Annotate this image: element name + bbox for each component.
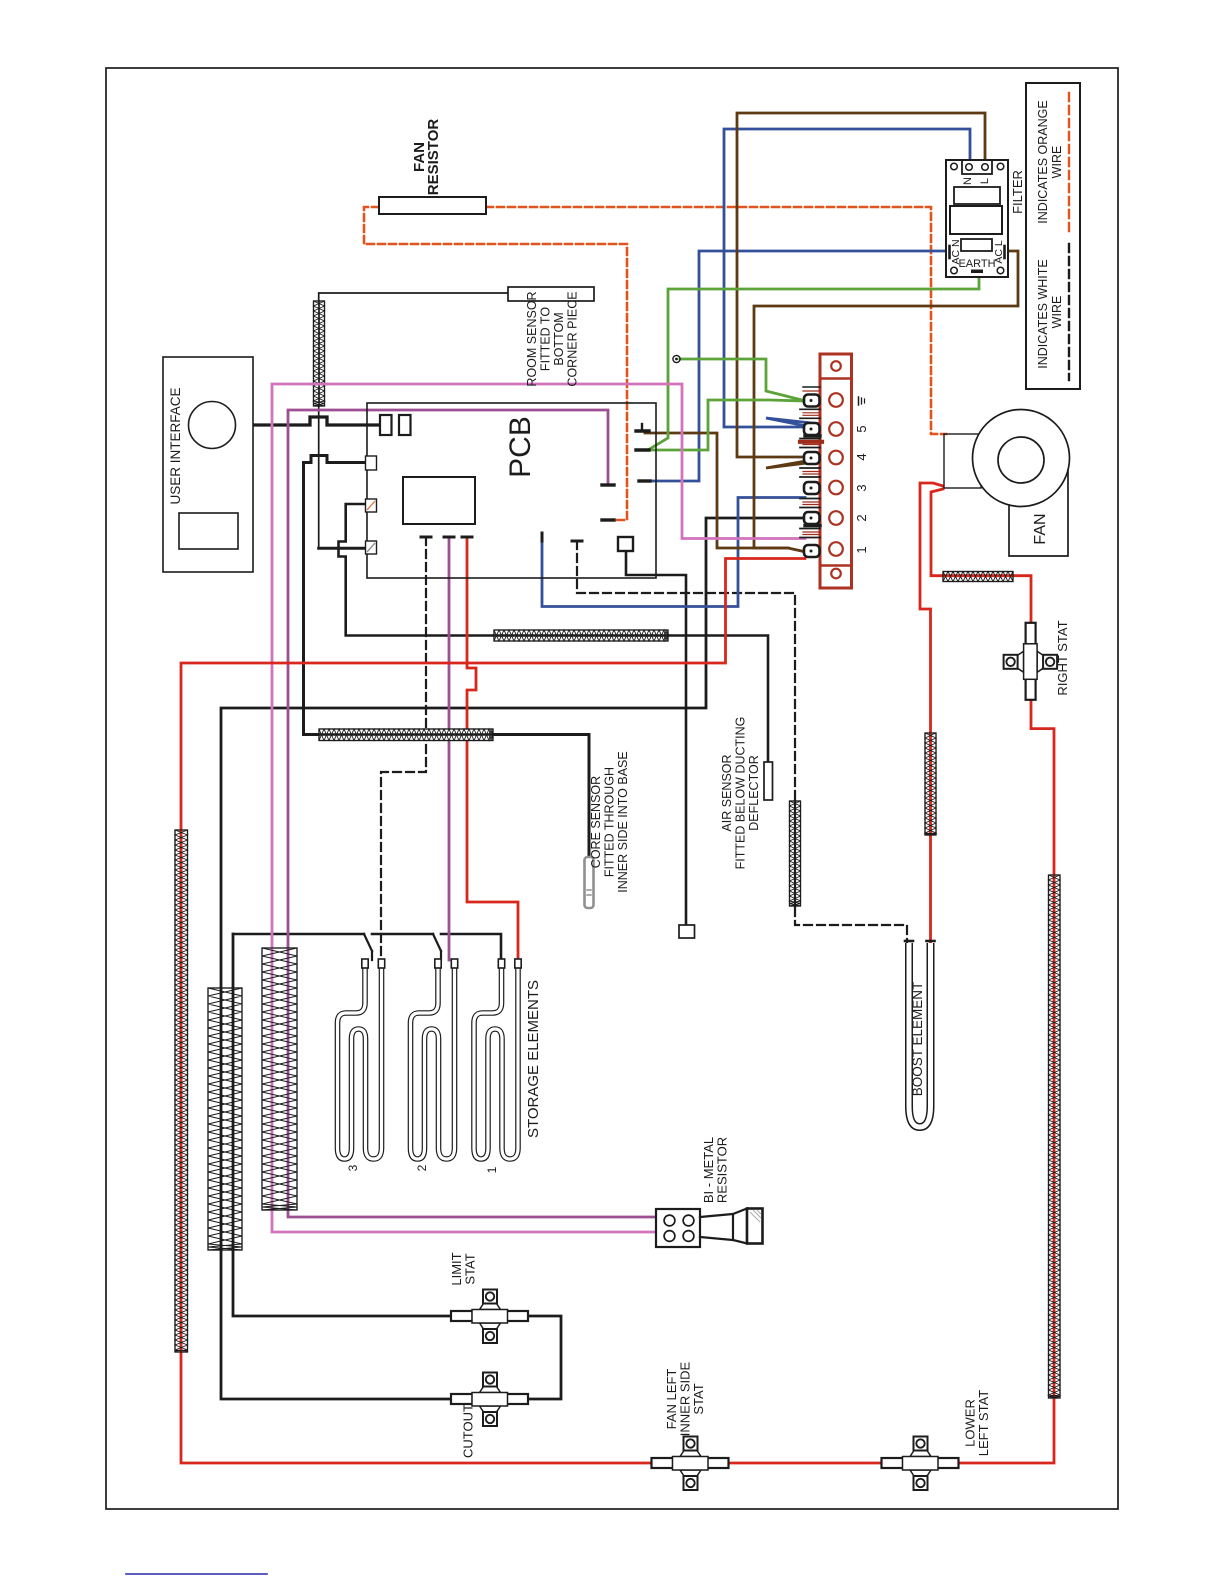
svg-text:3: 3 — [854, 484, 869, 491]
chassis earth point symbol — [673, 355, 680, 362]
terminal block TB1 — [820, 354, 852, 588]
svg-text:FILTER: FILTER — [1010, 170, 1025, 214]
fan resistor R1 — [379, 197, 486, 214]
fan M1 scroll body — [1007, 470, 1104, 565]
wire element bus segment 1 (black) — [233, 933, 364, 936]
green wire: PCB pin 2 to earth terminal lug — [648, 400, 806, 450]
terminal lug 1 — [804, 545, 820, 557]
legend white dashed sample — [1068, 244, 1070, 380]
wire element bus segment 2 (black) — [372, 933, 433, 936]
PCB pin box D — [366, 541, 377, 554]
purple wire: bi-metal resistor to PCB pin — [288, 410, 656, 1217]
footer blue line — [126, 1573, 267, 1575]
red wire: fan motor to boost element right leg — [920, 483, 943, 943]
red wire: fan motor to right stat — [931, 489, 1031, 623]
terminal earth symbol — [858, 397, 860, 405]
wire terminal 2 to cutout via left run (black) — [221, 518, 804, 1399]
svg-text:N: N — [962, 177, 974, 185]
user interface dial circle — [189, 402, 236, 449]
filter inner rect 2 — [950, 206, 1002, 234]
PCB internal connector box — [618, 537, 633, 551]
PCB pin bar 5 (orange) — [602, 518, 614, 521]
terminal lug 3 — [804, 482, 820, 494]
PCB connector box A2 — [399, 415, 411, 435]
sleeve on red boost element feed — [925, 733, 936, 835]
wire element bus segment 3 (black) — [441, 934, 501, 960]
wire room sensor lead (black) down left side — [319, 293, 508, 548]
brown wire: PCB pin 1 to terminal 1 — [645, 433, 788, 548]
filter N-L terminal rect — [962, 160, 992, 174]
PCB bottom pin T (purple) — [444, 536, 454, 539]
PCB ic rectangle — [403, 477, 475, 524]
filter inner rect 1 — [954, 187, 1000, 204]
blue wire: PCB bottom pin to terminal 3 comb — [542, 498, 805, 607]
pink wire: bi-metal resistor to terminal 1 comb — [272, 384, 805, 1232]
filter AC L terminal bar — [1003, 246, 1006, 258]
wire limit stat to cutout series link (black) — [528, 1316, 561, 1399]
red wire: right stat to right side sleeve and lower left stat — [959, 700, 1055, 1463]
PCB pin box C — [366, 499, 377, 512]
PCB pin bar 4 (purple) — [602, 483, 614, 486]
svg-text:L: L — [979, 178, 991, 184]
svg-text:INDICATES ORANGE: INDICATES ORANGE — [1036, 100, 1050, 223]
svg-text:STAT: STAT — [691, 1383, 706, 1414]
legend orange dashed sample — [1068, 93, 1070, 235]
stub element 2 left terminal — [440, 951, 442, 960]
filter earth bar — [971, 270, 983, 274]
red wire: terminal 1 to left side run and lower stats chain — [181, 559, 805, 1464]
svg-text:WIRE: WIRE — [1050, 296, 1064, 329]
terminal lug 2 — [804, 512, 820, 524]
lower left stat TH5 — [882, 1437, 959, 1491]
svg-text:3: 3 — [346, 1164, 360, 1171]
svg-text:ROOM SENSOR: ROOM SENSOR — [525, 291, 539, 386]
sleeve on room sensor wire — [314, 301, 325, 406]
blue wire: PCB pin 3 to filter AC N — [648, 251, 951, 481]
svg-text:PCB: PCB — [504, 416, 537, 478]
svg-text:1: 1 — [854, 546, 869, 553]
boost element EL4 — [909, 943, 931, 1127]
brown wire: terminal 4 up to filter L — [766, 458, 848, 468]
wire core sensor: PCB pin B left and down to probe (black, hop) — [304, 456, 590, 859]
filter FL1 box — [946, 160, 1008, 277]
PCB pin bar 1 (brown) — [636, 429, 649, 432]
sleeve on air sensor run (horizontal) — [494, 630, 668, 641]
sleeve on dashed boost element wire — [790, 801, 801, 906]
svg-text:FITTED TO: FITTED TO — [539, 307, 553, 371]
dashed white wire: PCB pin to element 3 right terminal — [381, 537, 426, 960]
pink wire crossing room-sensor sleeve — [311, 383, 327, 386]
svg-text:CUTOUT: CUTOUT — [461, 1404, 476, 1458]
svg-text:AIR SENSOR: AIR SENSOR — [720, 754, 734, 831]
bi-metal resistor connector box — [656, 1209, 700, 1247]
storage element 3 — [338, 966, 382, 1159]
green wire: chassis point to earth terminal lug — [680, 359, 806, 401]
PCB bottom pin T (red) — [462, 536, 472, 539]
filter terminal circles top — [951, 163, 958, 170]
green wire: PCB pin 2 up to filter EARTH — [648, 273, 979, 450]
terminal lug earth — [804, 395, 820, 407]
PCB bottom pin T (dashed) — [421, 536, 431, 539]
purple wire: PCB bottom pin to element 2 right terminal — [448, 539, 451, 960]
svg-text:USER INTERFACE: USER INTERFACE — [168, 387, 183, 504]
svg-text:FAN: FAN — [1032, 513, 1049, 544]
svg-text:WIRE: WIRE — [1050, 146, 1064, 179]
svg-text:CORNER PIECE: CORNER PIECE — [566, 291, 580, 386]
red wire: PCB bottom pin to element 1 right terminal (with hop) — [467, 539, 518, 960]
svg-text:RESISTOR: RESISTOR — [715, 1137, 730, 1203]
svg-text:FITTED THROUGH: FITTED THROUGH — [603, 767, 617, 877]
wire room sensor lead to PCB pin D (bold) — [319, 547, 366, 550]
cutout TH3 — [451, 1373, 528, 1427]
sleeve on red fan-to-right-stat run (horizontal) — [943, 572, 1013, 582]
legend box — [1026, 83, 1080, 389]
red wire: fan left inner side stat to lower left stat — [727, 1462, 881, 1465]
svg-text:2: 2 — [854, 514, 869, 521]
limit stat TH2 — [451, 1290, 528, 1344]
sleeve on red left-side run — [175, 830, 188, 1352]
user interface U1 box — [163, 357, 253, 572]
filter terminal circles bottom — [951, 267, 958, 274]
border frame — [106, 68, 1118, 1509]
svg-text:RIGHT STAT: RIGHT STAT — [1055, 620, 1070, 695]
fan left inner side stat TH4 — [652, 1437, 729, 1491]
stub element 3 left terminal — [371, 951, 373, 960]
terminal lug 4 — [804, 452, 820, 464]
orange dashed wire: fan resistor right end to fan motor box — [486, 207, 946, 434]
sleeve on red right-side run — [1049, 875, 1061, 1398]
blue wire: terminal 5 up to filter N — [766, 418, 848, 427]
storage element 2 — [411, 966, 455, 1159]
PCB pin box B — [366, 456, 377, 470]
wire user-interface to PCB pin A (black, hop over room-sensor wire) — [253, 417, 380, 425]
PCB U2 outline — [367, 403, 656, 578]
svg-text:STAT: STAT — [463, 1253, 478, 1284]
svg-text:STORAGE ELEMENTS: STORAGE ELEMENTS — [525, 980, 542, 1138]
wire air sensor from PCB pin C down and right to probe (black) — [339, 504, 769, 763]
bi-metal resistor body — [733, 1209, 747, 1244]
svg-text:4: 4 — [854, 453, 869, 460]
svg-text:INDICATES WHITE: INDICATES WHITE — [1036, 259, 1050, 369]
PCB pin bar 2 (green) — [636, 448, 649, 451]
svg-text:EARTH: EARTH — [958, 258, 995, 270]
svg-text:DEFLECTOR: DEFLECTOR — [747, 755, 761, 830]
svg-text:INNER SIDE INTO BASE: INNER SIDE INTO BASE — [616, 751, 630, 892]
sleeve on purple pair to bi-metal resistor — [262, 948, 297, 1210]
terminal lug 5 — [804, 423, 820, 435]
bi-metal resistor leads — [700, 1214, 733, 1217]
user interface display rectangle — [179, 513, 238, 549]
svg-text:LEFT STAT: LEFT STAT — [976, 1390, 991, 1457]
right stat TH1 — [1004, 623, 1058, 700]
fan motor terminal box — [944, 434, 981, 488]
fan inner circle — [998, 437, 1044, 483]
filter AC N terminal bar — [948, 246, 951, 258]
svg-text:CORE SENSOR: CORE SENSOR — [589, 776, 603, 868]
svg-text:FITTED BELOW DUCTING: FITTED BELOW DUCTING — [734, 717, 748, 870]
core sensor probe — [585, 857, 594, 908]
PCB bottom pin T (dashed 2) — [572, 540, 582, 543]
wire PCB internal box down to air-sensor junction box (black) — [626, 551, 686, 925]
wire element bus down to limit stat (black) — [233, 934, 451, 1316]
svg-text:5: 5 — [854, 425, 869, 432]
PCB bottom pin stub (blue) — [541, 533, 544, 541]
air sensor probe — [764, 762, 773, 800]
bus jog diagonal to element 2 — [433, 934, 441, 951]
orange dashed wire: fan resistor left end to PCB pin — [364, 207, 627, 520]
filter inner rect 3 — [961, 239, 992, 251]
brown wire: terminal 1 to filter AC L — [754, 251, 1018, 552]
dashed white wire: PCB pin to boost element left leg — [577, 541, 907, 943]
PCB connector box A — [380, 415, 392, 435]
PCB pin bar 3 (blue) — [639, 479, 650, 482]
svg-text:RESISTOR: RESISTOR — [425, 119, 442, 196]
terminal comb fingers — [800, 408, 820, 410]
svg-text:2: 2 — [415, 1164, 429, 1171]
sleeve on core sensor run (horizontal) — [319, 729, 493, 741]
storage element 1 — [474, 966, 518, 1159]
svg-text:BOOST ELEMENT: BOOST ELEMENT — [910, 982, 925, 1097]
bus jog diagonal to element 3 — [364, 934, 372, 951]
svg-text:BOTTOM: BOTTOM — [552, 312, 566, 365]
svg-text:1: 1 — [485, 1166, 499, 1173]
room sensor body — [508, 287, 594, 301]
sleeve on black pair to limit stat and cutout — [208, 988, 242, 1250]
air sensor junction box — [679, 925, 695, 938]
